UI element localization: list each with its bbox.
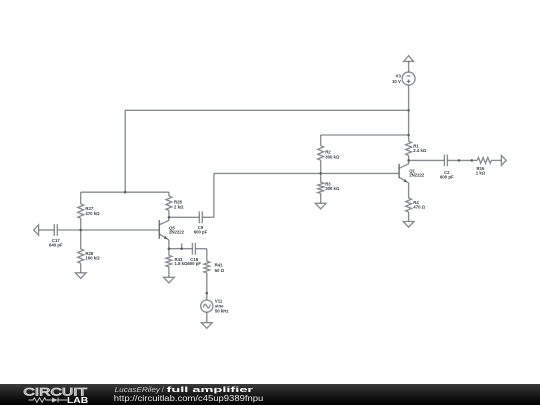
label Q1	[409, 168, 425, 177]
label R2	[325, 150, 340, 160]
wire Q1 emitter down	[408, 183, 410, 198]
resistor R16	[477, 158, 491, 164]
label V3	[392, 74, 401, 84]
svg-text:10 V: 10 V	[392, 79, 401, 84]
node R2 branch junction	[407, 134, 410, 137]
label C9	[194, 225, 208, 235]
wire R26 to ground	[80, 263, 82, 273]
resistor R28	[166, 196, 172, 211]
node output wire 1	[458, 159, 461, 162]
wire input to C17	[39, 229, 55, 231]
svg-text:160 kΩ: 160 kΩ	[85, 255, 100, 260]
capacitor C2	[444, 155, 447, 167]
wire R2 branch rail	[321, 134, 409, 136]
wire R27 bottom	[80, 218, 82, 230]
wire emitter to R43	[168, 249, 170, 256]
svg-text:50 Ω: 50 Ω	[215, 268, 225, 273]
label C2	[440, 170, 454, 179]
svg-text:2.4 kΩ: 2.4 kΩ	[413, 148, 427, 153]
svg-text:2N2222: 2N2222	[169, 230, 185, 235]
wire R28 top	[168, 192, 170, 196]
svg-text:http://circuitlab.com/c45up938: http://circuitlab.com/c45up9389fnpu	[114, 393, 263, 402]
wire C2 to R16	[447, 159, 477, 161]
label R4	[413, 200, 425, 210]
svg-text:1.8 kΩ: 1.8 kΩ	[175, 261, 189, 266]
CircuitLab logo	[0, 384, 110, 405]
wire stage2 base rail	[214, 172, 399, 174]
source V3	[402, 72, 415, 85]
terminal IN	[34, 225, 39, 235]
wire top supply rail	[125, 109, 408, 111]
wire R41 to V11	[206, 273, 208, 300]
ground below R26	[75, 273, 86, 279]
ground below R3	[315, 203, 326, 209]
ground below R43	[164, 277, 175, 283]
svg-text:600 pF: 600 pF	[194, 230, 208, 235]
label R1	[413, 143, 427, 153]
node left rail junction	[124, 191, 127, 194]
svg-text:470 kΩ: 470 kΩ	[85, 211, 100, 216]
wire R1 bottom	[408, 156, 410, 161]
wire R28 bottom	[168, 211, 170, 218]
resistor R27	[78, 204, 84, 218]
transistor Q1	[399, 160, 409, 183]
svg-text:R41: R41	[215, 263, 223, 268]
wire Q5 emitter down	[168, 240, 170, 249]
wire R26 top	[80, 230, 82, 249]
footer bar	[0, 384, 540, 405]
label R16	[476, 166, 486, 175]
transistor Q5	[159, 217, 169, 240]
svg-text:LucasERiley: LucasERiley	[115, 384, 162, 393]
wire R16 to output	[491, 159, 501, 161]
wire V11 to ground	[206, 312, 208, 323]
wire R27 top	[80, 192, 82, 204]
svg-text:full amplifier: full amplifier	[167, 384, 254, 393]
svg-text:300 kΩ: 300 kΩ	[325, 186, 340, 191]
ground below R4	[403, 222, 414, 228]
resistor R3	[318, 182, 324, 193]
svg-text:300 kΩ: 300 kΩ	[325, 154, 340, 159]
wire R4 to ground	[408, 212, 410, 222]
label V11	[215, 299, 229, 314]
terminal OUT	[501, 155, 506, 165]
node above V11	[206, 292, 209, 295]
svg-text:/: /	[162, 384, 165, 393]
wire R43 to ground	[168, 267, 170, 277]
svg-text:470 Ω: 470 Ω	[413, 205, 425, 210]
svg-text:640 pF: 640 pF	[49, 243, 63, 248]
node stub junction	[180, 247, 183, 250]
node supply rail junction	[407, 109, 410, 112]
logo squiggle resistor-diode	[28, 397, 67, 402]
resistor R4	[406, 198, 412, 212]
label Q5	[169, 225, 185, 234]
wire C18 right	[195, 248, 206, 250]
wire C17 to Q5 base	[57, 229, 159, 231]
label R26	[85, 251, 100, 260]
wire collector to C9	[169, 216, 199, 218]
wire terminal to V3	[408, 61, 410, 72]
svg-text:600 pF: 600 pF	[187, 261, 201, 266]
svg-text:2N2222: 2N2222	[409, 172, 425, 177]
terminal V+	[404, 56, 414, 62]
label R41	[215, 263, 225, 273]
resistor R2	[318, 146, 324, 160]
wire C9 right	[202, 216, 214, 218]
wire R2 top	[320, 135, 322, 146]
svg-text:600 pF: 600 pF	[440, 174, 454, 179]
wire stub at emitter net	[181, 243, 183, 248]
svg-text:2 kΩ: 2 kΩ	[174, 204, 184, 209]
node A bias junction	[79, 229, 82, 232]
wire left supply drop	[124, 110, 126, 192]
resistor R43	[166, 255, 172, 267]
node R2 R3 junction	[319, 172, 322, 175]
wire collector to C2	[409, 159, 445, 161]
label C17 value	[49, 238, 63, 247]
label R3	[325, 181, 340, 191]
title and url text	[0, 384, 320, 405]
wire R3 to ground	[320, 194, 322, 204]
capacitor C17	[54, 224, 57, 236]
svg-text:1 kΩ: 1 kΩ	[476, 170, 486, 175]
resistor R1	[406, 141, 412, 155]
node Q5 emitter	[168, 247, 171, 250]
capacitor C9	[199, 211, 202, 223]
node Q5 collector	[168, 216, 171, 219]
label R28	[174, 200, 184, 210]
wire R3 top	[320, 173, 322, 182]
wire emitter to C18	[169, 248, 193, 250]
svg-text:50 kHz: 50 kHz	[215, 308, 229, 313]
ground below V11	[201, 323, 212, 329]
wire left stage rail	[81, 191, 169, 193]
label R43	[175, 257, 189, 266]
label C18	[187, 257, 201, 266]
wire down to R41	[206, 249, 208, 262]
capacitor C18	[192, 243, 195, 255]
node Q1 collector	[407, 159, 410, 162]
source V11	[201, 300, 213, 312]
label R27	[85, 206, 100, 216]
resistor R26	[78, 249, 84, 263]
wire C9 to base rail riser	[213, 173, 215, 217]
resistor R41	[204, 261, 210, 273]
wire V3 to rail	[408, 85, 410, 141]
wire R2 bottom	[320, 160, 322, 173]
node output wire 2	[471, 159, 474, 162]
